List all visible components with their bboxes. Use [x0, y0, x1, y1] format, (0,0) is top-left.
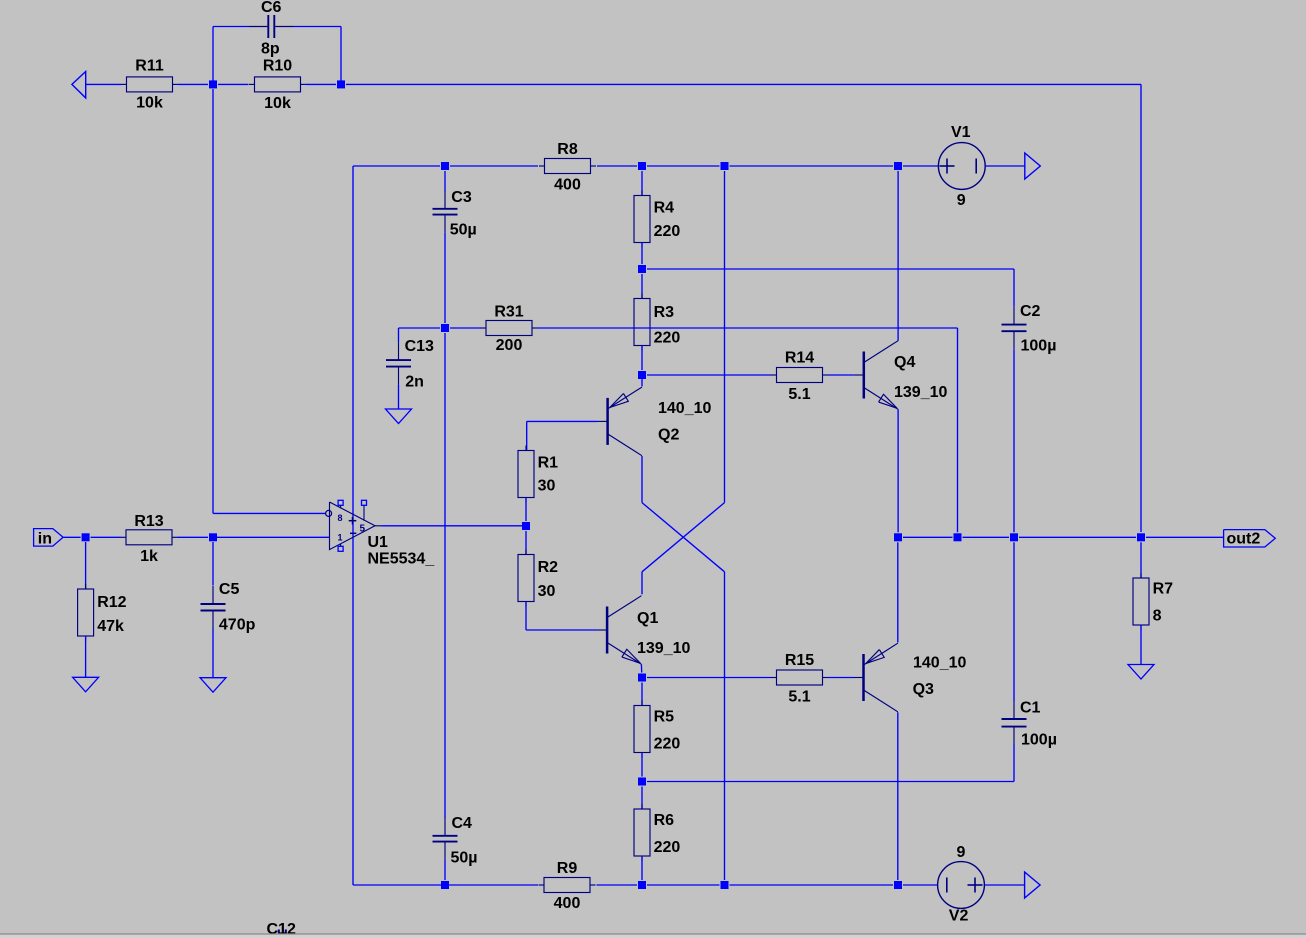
resistor R13	[121, 513, 178, 565]
node 898,537.3	[894, 533, 902, 541]
wire	[85, 636, 87, 677]
wire	[903, 536, 953, 538]
wire	[306, 83, 336, 85]
node 445,166	[441, 162, 449, 170]
svg-text:30: 30	[538, 478, 556, 495]
port out2	[1224, 530, 1276, 548]
svg-text:R14: R14	[785, 349, 814, 366]
svg-text:R8: R8	[557, 141, 578, 158]
svg-text:47k: 47k	[97, 618, 124, 635]
resistor R11	[121, 57, 178, 111]
node 341,84.4	[337, 80, 345, 88]
wire	[641, 171, 643, 196]
svg-text:R10: R10	[263, 58, 292, 75]
resistor R14	[771, 349, 828, 403]
node 724.5,885	[721, 881, 729, 889]
svg-text:220: 220	[654, 839, 681, 856]
resistor R10	[249, 58, 306, 112]
resistor R15	[771, 652, 828, 706]
resistor R8	[539, 141, 596, 194]
wire	[399, 327, 441, 329]
svg-text:200: 200	[496, 337, 523, 354]
wire	[353, 884, 538, 886]
resistor R12	[78, 584, 127, 641]
transistor Q1	[597, 596, 690, 665]
svg-text:V2: V2	[949, 908, 969, 925]
wire	[444, 171, 446, 191]
wire	[640, 664, 642, 672]
wire	[730, 165, 894, 167]
svg-text:R3: R3	[654, 304, 675, 321]
resistor R6	[634, 804, 680, 861]
svg-text:9: 9	[957, 192, 966, 209]
svg-text:10k: 10k	[136, 95, 163, 112]
wire	[641, 754, 643, 777]
resistor R7	[1133, 573, 1173, 630]
wire	[525, 499, 527, 522]
svg-text:139_10: 139_10	[894, 384, 947, 401]
svg-text:50µ: 50µ	[451, 850, 478, 867]
node 642,375	[638, 371, 646, 379]
wire	[444, 860, 446, 880]
wire	[641, 375, 643, 386]
node 642,781.5	[638, 778, 646, 786]
wire	[647, 677, 771, 679]
wire	[1140, 542, 1142, 578]
svg-text:R9: R9	[557, 860, 578, 877]
resistor R4	[634, 191, 680, 248]
wire	[527, 421, 598, 450]
wire	[647, 269, 1014, 307]
wire	[903, 884, 938, 886]
wire	[730, 884, 894, 886]
svg-text:out2: out2	[1227, 531, 1261, 548]
svg-text:R1: R1	[538, 455, 559, 472]
node 642,269	[638, 265, 646, 273]
resistor R9	[539, 860, 596, 912]
wire	[346, 83, 1141, 85]
wire	[398, 328, 400, 342]
node 445,328	[441, 324, 449, 332]
node 957.5,537.3	[954, 533, 962, 541]
node 898,885	[894, 881, 902, 889]
wire	[1140, 84, 1142, 532]
capacitor C2	[1002, 303, 1057, 354]
ground	[386, 409, 412, 424]
wire	[1019, 536, 1136, 538]
wire	[212, 629, 214, 678]
wire	[647, 165, 720, 167]
svg-text:8: 8	[1153, 608, 1162, 625]
node 1014,537.3	[1010, 533, 1018, 541]
wire	[1146, 536, 1224, 538]
capacitor C12	[267, 921, 296, 938]
svg-text:R7: R7	[1153, 581, 1174, 598]
svg-text:10k: 10k	[264, 95, 291, 112]
node 724.5,166	[721, 162, 729, 170]
svg-text:220: 220	[654, 330, 681, 347]
node 445,885	[441, 881, 449, 889]
svg-text:5.1: 5.1	[788, 386, 810, 403]
wire	[597, 165, 637, 167]
wire	[903, 165, 938, 167]
wire	[724, 171, 726, 503]
svg-text:9: 9	[957, 844, 966, 861]
wire	[538, 327, 958, 329]
svg-text:R4: R4	[654, 199, 675, 216]
wire	[218, 83, 249, 85]
wire	[641, 683, 643, 706]
svg-text:C13: C13	[405, 338, 434, 355]
wire	[375, 525, 526, 527]
svg-text:R13: R13	[134, 513, 163, 530]
wire	[642, 503, 725, 572]
svg-text:400: 400	[554, 895, 581, 912]
resistor R5	[634, 701, 680, 758]
wire	[647, 374, 771, 376]
svg-text:139_10: 139_10	[637, 640, 690, 657]
node 1141,537.3	[1137, 533, 1145, 541]
wire	[897, 542, 899, 642]
svg-text:1: 1	[338, 533, 343, 543]
svg-text:400: 400	[554, 177, 581, 194]
wire	[398, 385, 400, 409]
svg-text:R2: R2	[538, 559, 559, 576]
svg-text:C5: C5	[219, 581, 240, 598]
op-amp U1	[326, 500, 436, 567]
svg-text:Q1: Q1	[637, 610, 658, 627]
wire	[85, 542, 87, 589]
wire	[213, 89, 326, 513]
wire	[647, 884, 720, 886]
ground	[73, 677, 99, 692]
svg-text:R15: R15	[785, 652, 814, 669]
wire	[213, 536, 330, 538]
wire	[1140, 625, 1142, 665]
window edge	[0, 934, 1306, 938]
wire	[450, 327, 481, 329]
input pointer arrow	[72, 72, 86, 98]
svg-text:5: 5	[360, 524, 366, 535]
ground	[1128, 665, 1154, 680]
node 526,526	[522, 522, 530, 530]
wire	[63, 536, 81, 538]
svg-text:R31: R31	[494, 303, 523, 320]
svg-text:Q2: Q2	[658, 426, 679, 443]
svg-text:8p: 8p	[261, 41, 280, 58]
node 213,84.4	[209, 80, 217, 88]
wire	[212, 27, 214, 85]
wire	[353, 165, 440, 167]
resistor R3	[634, 294, 680, 351]
svg-text:220: 220	[654, 223, 681, 240]
svg-text:1k: 1k	[140, 548, 158, 565]
wire	[213, 26, 341, 28]
svg-text:30: 30	[538, 583, 556, 600]
wire	[641, 857, 643, 880]
svg-text:C4: C4	[452, 815, 473, 832]
svg-text:R12: R12	[97, 594, 126, 611]
voltage source V2	[938, 844, 1025, 925]
wire	[641, 572, 643, 595]
svg-text:NE5534_: NE5534_	[368, 551, 436, 568]
svg-text:140_10: 140_10	[913, 655, 966, 672]
node 642,677.5	[638, 674, 646, 682]
wire	[963, 536, 1010, 538]
wire	[641, 243, 643, 265]
capacitor C1	[1002, 699, 1057, 748]
transistor Q4	[854, 341, 948, 410]
svg-text:100µ: 100µ	[1021, 731, 1057, 748]
wire	[897, 409, 899, 532]
svg-text:C2: C2	[1020, 303, 1041, 320]
svg-text:R11: R11	[135, 57, 164, 74]
wire	[444, 333, 446, 818]
svg-text:V1: V1	[951, 124, 971, 141]
wire	[1013, 349, 1015, 532]
node 213,537.3	[209, 533, 217, 541]
wire	[641, 274, 643, 299]
transistor Q3	[854, 643, 967, 712]
svg-text:5.1: 5.1	[788, 689, 810, 706]
svg-text:2n: 2n	[405, 373, 424, 390]
svg-text:R6: R6	[654, 812, 675, 829]
svg-text:in: in	[38, 531, 52, 548]
wire	[450, 165, 538, 167]
node 642,166	[638, 162, 646, 170]
wire	[91, 536, 121, 538]
wire	[641, 346, 643, 371]
wire	[178, 83, 208, 85]
svg-text:R5: R5	[654, 708, 675, 725]
node 898,166	[894, 162, 902, 170]
resistor R31	[481, 303, 538, 354]
wire	[828, 374, 854, 376]
svg-text:U1: U1	[368, 534, 389, 551]
svg-text:50µ: 50µ	[450, 221, 477, 238]
svg-text:8: 8	[338, 513, 343, 523]
svg-text:C3: C3	[451, 189, 472, 206]
resistor R1	[518, 446, 558, 503]
wire	[957, 328, 959, 532]
svg-text:140_10: 140_10	[658, 400, 711, 417]
svg-text:220: 220	[654, 735, 681, 752]
svg-text:C1: C1	[1020, 699, 1041, 716]
resistor R2	[518, 550, 558, 607]
capacitor C4	[433, 815, 478, 867]
wire	[828, 677, 854, 679]
wire	[212, 542, 214, 586]
wire	[1013, 542, 1015, 701]
wire	[724, 572, 726, 880]
node 642,885	[638, 881, 646, 889]
power arrow	[1025, 872, 1041, 898]
wire	[641, 456, 643, 503]
wire	[642, 503, 725, 572]
wire	[526, 603, 597, 631]
wire	[641, 787, 643, 810]
node 85.6,537.3	[82, 533, 90, 541]
capacitor C3	[433, 189, 477, 238]
voltage source V1	[938, 124, 1024, 209]
wire	[340, 27, 342, 85]
capacitor C13	[386, 338, 434, 390]
wire	[86, 83, 121, 85]
wire	[597, 884, 638, 886]
transistor Q2	[598, 387, 712, 456]
svg-text:C6: C6	[261, 0, 282, 16]
wire	[897, 712, 899, 880]
ground	[200, 678, 226, 693]
wire	[897, 171, 899, 341]
svg-text:Q3: Q3	[913, 681, 934, 698]
wire	[178, 536, 209, 538]
wire	[647, 745, 1014, 782]
svg-text:Q4: Q4	[894, 354, 915, 371]
svg-text:470p: 470p	[219, 617, 256, 634]
power arrow	[1025, 153, 1041, 179]
wire	[525, 531, 527, 555]
capacitor C5	[201, 581, 256, 634]
capacitor C6	[249, 0, 294, 58]
wire	[444, 233, 446, 323]
port in	[34, 529, 64, 548]
svg-text:100µ: 100µ	[1021, 337, 1057, 354]
wire	[352, 166, 354, 885]
